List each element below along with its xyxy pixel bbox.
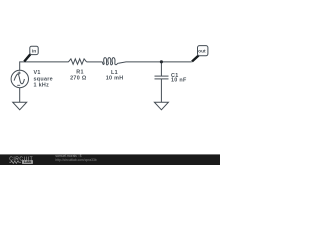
V1 minus sign (17, 84, 20, 86)
wire: capacitor to ground (160, 79, 162, 102)
footer bar (0, 154, 220, 165)
wire: source top lead up and right to resistor (20, 62, 69, 71)
svg-text:10 mH: 10 mH (106, 76, 124, 82)
port flag tail (out) (192, 55, 199, 61)
node junction dot (160, 60, 163, 63)
svg-text:square: square (34, 76, 53, 82)
svg-text:out: out (198, 49, 206, 55)
resistor R1 (68, 59, 86, 65)
port box in (30, 46, 38, 54)
svg-text:10 nF: 10 nF (171, 78, 187, 84)
V1 plus sign (17, 72, 21, 86)
svg-text:in: in (32, 48, 36, 54)
logo LAB chip (22, 160, 33, 164)
capacitor C1 bottom plate (155, 78, 169, 80)
ground symbol (right) (154, 102, 168, 110)
wire: inductor to out tail (118, 62, 191, 63)
svg-text:270 Ω: 270 Ω (70, 76, 87, 82)
V1 waveform squiggle (14, 74, 24, 84)
inductor L1 (102, 58, 118, 65)
port box out (198, 46, 208, 56)
svg-text:http://circuitlab.com/cpra33b: http://circuitlab.com/cpra33b (55, 158, 96, 162)
svg-text:LAB: LAB (24, 160, 32, 164)
wire: resistor to inductor (87, 61, 103, 63)
logo resistor zigzag (9, 161, 21, 163)
svg-text:V1: V1 (34, 70, 41, 76)
wire: source bottom lead to ground (19, 88, 21, 103)
wire: junction down to capacitor (160, 62, 162, 76)
capacitor C1 top plate (155, 75, 169, 77)
port flag tail (in) (24, 54, 30, 61)
svg-text:1 kHz: 1 kHz (34, 83, 50, 89)
ground symbol (left) (13, 102, 27, 110)
voltage source V1 circle (11, 70, 28, 87)
component labels (34, 70, 187, 89)
